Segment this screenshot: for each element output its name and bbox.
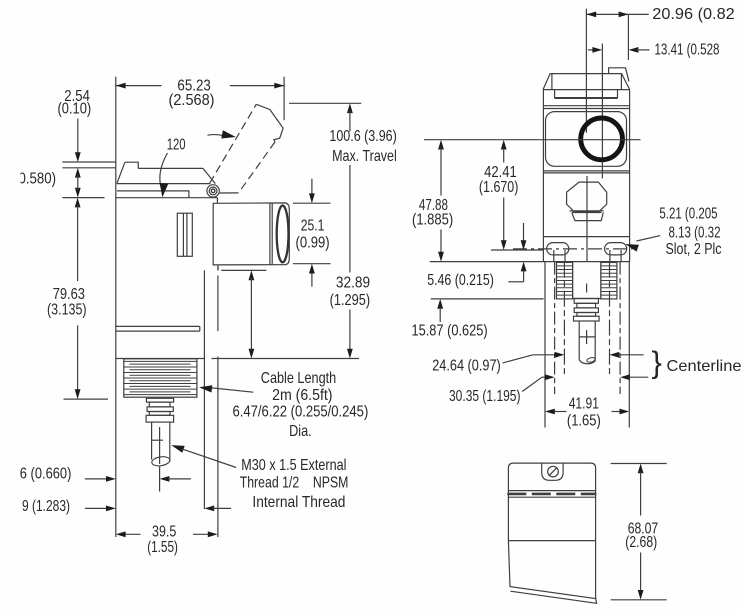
dimension 30.35 leader xyxy=(522,377,542,391)
head: top tab xyxy=(125,162,138,168)
svg-text:39.5: 39.5 xyxy=(152,524,176,541)
front cable xyxy=(578,321,580,360)
svg-text:25.1: 25.1 xyxy=(301,218,325,235)
sensor eye black ring xyxy=(581,118,623,160)
cover outline xyxy=(508,463,595,598)
front gland step 2 xyxy=(577,303,596,308)
boss bottom reference line xyxy=(431,298,544,300)
dimension (0.580) double arrows xyxy=(75,168,81,178)
operator octagon knob xyxy=(567,182,607,211)
body right edge upper xyxy=(216,198,218,204)
max travel top reference line xyxy=(289,102,361,104)
hidden slot line right outer xyxy=(619,262,621,394)
head: left slant edge xyxy=(117,162,125,183)
dimension 68.07 reference lines xyxy=(611,463,667,465)
center block xyxy=(572,262,574,298)
extension line tab top xyxy=(62,161,115,163)
cable side view xyxy=(151,422,153,459)
cable center line xyxy=(159,427,161,464)
svg-text:Cable Length: Cable Length xyxy=(261,370,336,387)
svg-text:20.96 (0.82: 20.96 (0.82 xyxy=(652,6,735,23)
dimension 24.64 leader xyxy=(503,355,533,363)
svg-text:15.87 (0.625): 15.87 (0.625) xyxy=(412,322,488,339)
cable gland ring 5 xyxy=(146,415,174,422)
dimension 15.87 arrow xyxy=(437,299,443,309)
front head cap xyxy=(550,73,622,75)
cover bottom flap xyxy=(510,591,596,603)
head: bottom plate line xyxy=(117,183,210,185)
body bottom line xyxy=(116,358,205,360)
cylinder bottom extension line xyxy=(217,266,219,271)
dimension 16.76 (0.660) xyxy=(85,478,108,480)
slot centerline left extension xyxy=(491,249,544,251)
dimension 32.89 vertical line xyxy=(249,270,255,280)
side view: body left edge / extension line xyxy=(115,77,117,537)
dimension 25.1 arrows xyxy=(311,179,313,195)
cable gland ring 3 xyxy=(147,407,173,412)
slot callout leader arrow xyxy=(625,244,639,252)
front view circle centerline B xyxy=(601,44,603,179)
120 leader arc with arrow xyxy=(160,153,168,189)
svg-text:9 (1.283): 9 (1.283) xyxy=(22,498,70,515)
cylinder head rim lines xyxy=(269,203,271,265)
svg-text:2m (6.5ft): 2m (6.5ft) xyxy=(272,387,332,404)
body top line xyxy=(116,197,218,199)
front gland step 4 xyxy=(577,313,596,317)
svg-text:(1.65): (1.65) xyxy=(567,413,601,430)
dimension 13.41 arrows xyxy=(588,49,595,51)
front head window recess xyxy=(555,90,618,98)
svg-text:79.63: 79.63 xyxy=(53,286,85,303)
octagon chord lines xyxy=(570,210,604,212)
svg-text:41.91: 41.91 xyxy=(569,395,599,412)
dimension 25.1 reference lines xyxy=(293,202,331,204)
mounting slot right hole edges xyxy=(609,250,611,262)
front body band lines xyxy=(543,105,629,107)
svg-text:6 (0.660): 6 (0.660) xyxy=(20,466,72,483)
cable tick line xyxy=(152,439,163,441)
extension line thread bottom left xyxy=(64,398,109,400)
dimension 42.41 vertical xyxy=(501,140,507,150)
svg-text:(1.295): (1.295) xyxy=(330,292,371,309)
svg-text:13.41 (0.528: 13.41 (0.528 xyxy=(655,42,720,59)
svg-text:M30 x 1.5 External: M30 x 1.5 External xyxy=(241,457,346,474)
cover screw slot xyxy=(549,468,557,476)
svg-text:100.6 (3.96): 100.6 (3.96) xyxy=(329,128,396,145)
body seam band xyxy=(116,325,200,327)
cover screw recess xyxy=(542,463,563,480)
hidden slot line left outer xyxy=(554,262,556,394)
head: second plate line with step xyxy=(117,191,189,198)
lever bottom edge near pivot xyxy=(220,192,239,194)
slot horizontal centerline dashes xyxy=(513,248,633,250)
threaded conduit section xyxy=(124,359,197,397)
horizontal centerline through circle xyxy=(424,139,641,141)
svg-text:6.47/6.22 (0.255/0.245): 6.47/6.22 (0.255/0.245) xyxy=(233,404,369,421)
svg-text:(1.670): (1.670) xyxy=(479,179,519,196)
dimension 20.96 line xyxy=(586,13,628,15)
dimension 79.63 line xyxy=(75,198,81,208)
front cable tick xyxy=(579,336,595,338)
front gland step 3 xyxy=(574,308,598,313)
svg-text:30.35 (1.195): 30.35 (1.195) xyxy=(449,388,521,405)
cylinder head side view outline xyxy=(213,203,289,265)
svg-text:Dia.: Dia. xyxy=(289,423,312,440)
svg-text:Max. Travel: Max. Travel xyxy=(332,148,397,165)
cover gasket lines xyxy=(508,490,595,492)
dimension 39.5 line xyxy=(124,533,140,535)
front gland step 5 xyxy=(574,316,600,321)
svg-text:(2.568): (2.568) xyxy=(169,92,215,109)
dimension 5.46 upper arrow xyxy=(523,223,525,241)
cover screw head xyxy=(548,466,559,477)
svg-text:8.13 (0.32: 8.13 (0.32 xyxy=(669,225,721,242)
svg-text:(0.10): (0.10) xyxy=(58,101,92,118)
side slot detail xyxy=(177,213,192,256)
cable gland ring 2 xyxy=(149,402,170,407)
roller pivot bushing xyxy=(207,185,219,197)
svg-text:5.46 (0.215): 5.46 (0.215) xyxy=(427,272,494,289)
front gland step 1 xyxy=(574,299,598,304)
dimension 47.88 vertical xyxy=(438,140,444,150)
svg-text:32.89: 32.89 xyxy=(336,275,370,292)
right threaded boss xyxy=(601,262,617,299)
extension line lever plate top xyxy=(62,167,115,169)
side view: 65.23 right extension line (lever tip) xyxy=(283,77,285,121)
cover seam line xyxy=(508,540,595,542)
dimension 100.6 vertical line xyxy=(347,103,353,113)
svg-text:Internal Thread: Internal Thread xyxy=(252,494,345,511)
hidden slot line left inner xyxy=(563,262,565,376)
svg-text:}: } xyxy=(652,345,662,380)
front body side edges xyxy=(542,90,544,262)
lever rotated position dashed outline xyxy=(210,104,256,183)
cable length leader arrow xyxy=(199,385,212,392)
svg-text:24.64 (0.97): 24.64 (0.97) xyxy=(432,358,501,375)
svg-text:Centerline: Centerline xyxy=(667,358,742,375)
left threaded boss xyxy=(557,262,573,299)
svg-text:Thread 1/2 NPSM: Thread 1/2 NPSM xyxy=(240,475,349,492)
svg-text:120: 120 xyxy=(167,137,186,154)
extension line flange right xyxy=(628,262,630,428)
flange bottom line with left extension xyxy=(430,261,630,263)
cylinder head face ellipse xyxy=(277,206,289,263)
svg-text:(0.99): (0.99) xyxy=(296,235,330,252)
M30 leader arrow xyxy=(171,445,185,453)
dimension 41.91 line xyxy=(553,411,566,413)
mounting slot left outer xyxy=(547,243,569,255)
head: top edge xyxy=(138,167,203,169)
extension line flange left xyxy=(544,262,546,428)
cable centerline below xyxy=(159,467,161,492)
cable gland ring 4 xyxy=(149,412,170,416)
dimension 32.59 (1.283) xyxy=(85,507,108,509)
hidden slot line right inner xyxy=(609,262,611,376)
front head cap corner verticals xyxy=(551,74,553,90)
front cable center dash xyxy=(586,330,588,344)
mounting slot right outer xyxy=(605,243,627,255)
svg-text:(2.68): (2.68) xyxy=(625,534,657,551)
rotation direction arrow xyxy=(208,134,223,137)
center block dash xyxy=(586,284,588,293)
front plate rounded square xyxy=(546,112,627,167)
body lower right edge xyxy=(203,270,205,509)
svg-text:(1.885): (1.885) xyxy=(412,212,453,229)
extension line body top left xyxy=(62,197,104,199)
svg-text:(1.55): (1.55) xyxy=(147,539,178,556)
dimension 68.07 vertical xyxy=(638,464,644,474)
flange top line xyxy=(543,236,629,238)
dimension 5.46 lower arrow and leader xyxy=(521,262,527,272)
svg-text:5.21 (0.205: 5.21 (0.205 xyxy=(659,206,717,223)
octagon centerline xyxy=(586,176,588,262)
svg-text:Slot, 2 Plc: Slot, 2 Plc xyxy=(666,241,722,258)
dimension 65.23 (2.568) line xyxy=(116,85,162,87)
front head tab xyxy=(609,68,629,82)
front view vertical centerline A xyxy=(585,9,587,133)
head: right bevel xyxy=(203,168,215,183)
svg-text:(3.135): (3.135) xyxy=(47,301,87,318)
body right edge lower xyxy=(217,266,219,271)
octagon chin xyxy=(572,213,604,221)
cover gasket dashes xyxy=(507,493,596,496)
cable gland ring 1 xyxy=(146,398,173,402)
dimension 2.54 leader arrow down xyxy=(77,119,79,154)
lower band double lines xyxy=(543,170,629,172)
extension line circle right xyxy=(627,14,629,60)
mounting slot left hole edges xyxy=(553,250,555,262)
